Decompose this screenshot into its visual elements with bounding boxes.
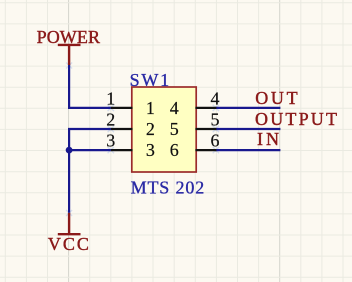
wire POWER to pin 1 — [69, 65, 111, 108]
power port POWER — [37, 27, 101, 65]
svg-text:5: 5 — [170, 119, 179, 139]
svg-text:SW1: SW1 — [130, 70, 171, 90]
wire pin 4 to OUT — [215, 107, 280, 109]
svg-text:4: 4 — [211, 88, 220, 108]
wire pin 5 to OUTPUT — [215, 128, 280, 130]
svg-text:VCC: VCC — [48, 234, 91, 254]
pin 3 — [106, 131, 155, 161]
wire pin 6 to IN — [215, 149, 280, 151]
pin 4 — [170, 88, 220, 118]
pin 5 — [170, 109, 220, 138]
svg-text:6: 6 — [170, 140, 179, 160]
svg-text:2: 2 — [106, 109, 115, 129]
pin 1 — [106, 88, 155, 118]
svg-text:OUTPUT: OUTPUT — [255, 109, 339, 129]
svg-text:MTS 202: MTS 202 — [131, 177, 205, 197]
junction dot — [66, 147, 73, 154]
svg-text:1: 1 — [146, 98, 155, 118]
wire pin 2 branch — [69, 129, 111, 213]
svg-text:IN: IN — [257, 129, 282, 149]
svg-text:3: 3 — [146, 140, 155, 160]
svg-text:3: 3 — [106, 131, 115, 151]
wire end hotspot markers — [66, 63, 219, 217]
wire pin 3 branch — [69, 149, 111, 151]
switch SW1 body — [132, 87, 196, 172]
svg-text:1: 1 — [106, 88, 115, 108]
svg-text:2: 2 — [146, 119, 155, 139]
svg-text:5: 5 — [211, 109, 220, 129]
pin 6 — [170, 131, 220, 161]
svg-text:4: 4 — [170, 98, 179, 118]
power port VCC — [48, 213, 91, 254]
svg-text:OUT: OUT — [255, 88, 300, 108]
svg-text:6: 6 — [211, 131, 220, 151]
pin 2 — [106, 109, 155, 138]
